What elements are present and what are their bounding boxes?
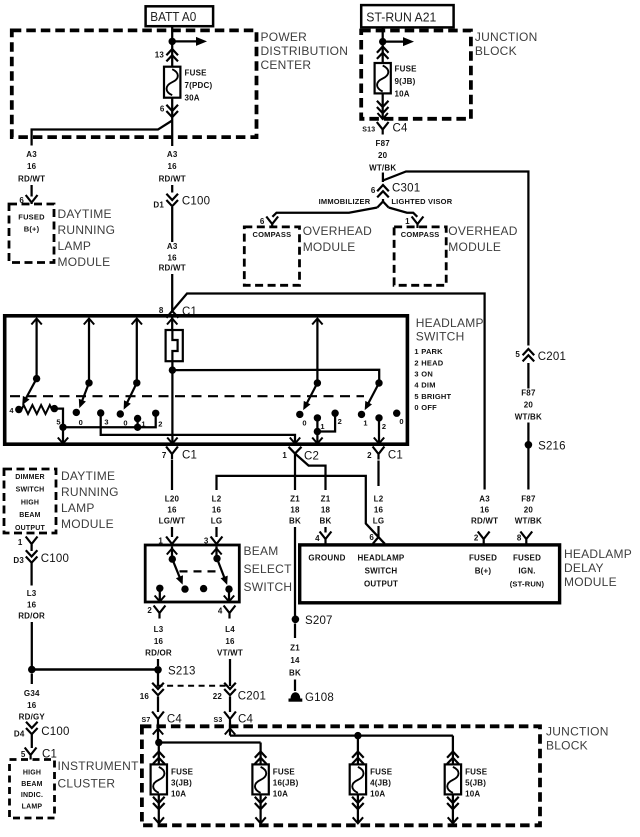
svg-text:C2: C2 [304, 451, 319, 463]
svg-text:PARK: PARK [421, 347, 443, 356]
power distribution center dashed box [12, 30, 257, 137]
wire bus contacts 5-1-2 [63, 426, 138, 428]
fuse F5 JB 10A [445, 736, 488, 824]
svg-text:L3: L3 [154, 625, 164, 634]
svg-text:G34: G34 [24, 689, 40, 698]
switch wiper low beam [169, 555, 183, 584]
svg-text:MODULE: MODULE [448, 240, 501, 254]
svg-text:16: 16 [27, 162, 37, 171]
svg-text:RUNNING: RUNNING [58, 223, 116, 237]
wire fuse 9 output [378, 93, 388, 119]
svg-text:A3: A3 [26, 150, 37, 159]
wire breaker to bus [171, 361, 173, 370]
svg-text:RD/WT: RD/WT [471, 517, 498, 526]
wire arrow to case left [58, 427, 68, 443]
svg-text:RD/WT: RD/WT [159, 264, 186, 273]
svg-text:1: 1 [363, 419, 367, 428]
wire into beam pin 1 [171, 527, 173, 537]
svg-text:20: 20 [524, 401, 534, 410]
wire label L3 16 RD/OR mid [145, 625, 172, 658]
svg-text:HEADLAMP: HEADLAMP [358, 554, 405, 563]
svg-text:G108: G108 [305, 692, 334, 704]
svg-text:6: 6 [369, 533, 374, 542]
svg-text:S213: S213 [168, 666, 196, 678]
label DAYTIME RUNNING LAMP MODULE 2 [61, 469, 119, 531]
svg-text:DELAY: DELAY [564, 561, 604, 575]
connector C201 dashed boundary [157, 685, 227, 687]
wire pin1 C2 down [294, 454, 296, 491]
svg-text:10A: 10A [465, 790, 480, 799]
node contacts 1-2 right [314, 428, 321, 435]
wire label A3 16 RD/WT left [18, 150, 45, 184]
svg-text:WT/BK: WT/BK [515, 517, 542, 526]
svg-text:HIGH: HIGH [23, 770, 41, 777]
wire into C100 [171, 185, 173, 193]
svg-text:LAMP: LAMP [22, 803, 43, 810]
svg-text:0: 0 [79, 418, 83, 427]
switch wiper headlamps [365, 379, 383, 410]
delay module pin text FUSED B+ [469, 554, 497, 576]
label FUSE 9(JB) 10A [395, 65, 418, 99]
contact spare [200, 585, 207, 592]
circuit breaker headlamp switch [166, 330, 183, 361]
wire F87 to C301 [382, 173, 384, 183]
connector C? pin 6 fork [26, 195, 38, 204]
svg-text:ST-RUN A21: ST-RUN A21 [366, 10, 436, 25]
wire high beam to S213 [32, 668, 158, 670]
connector C2 pin 1 [282, 447, 319, 463]
wire ST-RUN down to fuse 9 [382, 27, 384, 63]
svg-text:INSTRUMENT: INSTRUMENT [58, 759, 140, 773]
svg-text:SWITCH: SWITCH [16, 487, 45, 494]
wire into delay pin 4 [324, 527, 326, 533]
wire to S216 [527, 423, 529, 442]
svg-text:BRIGHT: BRIGHT [421, 392, 451, 401]
wire breaker down to pin 7 [167, 370, 177, 443]
svg-text:C100: C100 [41, 726, 69, 738]
delay module pin text FUSED IGN [510, 554, 545, 589]
svg-text:C1: C1 [182, 450, 197, 462]
label FUSE 7(PDC) 30A [185, 69, 213, 103]
svg-text:16: 16 [167, 506, 177, 515]
svg-text:14: 14 [290, 656, 300, 665]
svg-text:C4: C4 [238, 714, 254, 726]
junction block dashed box top [361, 31, 471, 119]
connector pin 1 dimmer [18, 537, 38, 552]
connector C100 D1 [153, 194, 210, 210]
svg-text:SWITCH: SWITCH [365, 567, 398, 576]
svg-text:A3: A3 [167, 242, 178, 251]
svg-text:10A: 10A [395, 90, 410, 99]
svg-text:OVERHEAD: OVERHEAD [303, 224, 372, 238]
svg-text:16: 16 [374, 506, 384, 515]
connector C4 S7 [142, 712, 183, 726]
svg-text:16: 16 [168, 254, 178, 263]
svg-text:8: 8 [517, 534, 522, 543]
connector C301 pin 6 [371, 183, 420, 198]
svg-text:COMPASS: COMPASS [253, 230, 292, 239]
svg-text:RD/WT: RD/WT [18, 175, 45, 184]
fuse F7 PDC 30A [164, 67, 180, 98]
wire S207 down [294, 624, 296, 639]
rheostat resistor [22, 405, 53, 414]
svg-text:CLUSTER: CLUSTER [58, 777, 116, 791]
wire label L20 16 LG/WT [159, 495, 186, 526]
svg-text:6: 6 [260, 217, 265, 226]
ignition feed label ST-RUN A21 [361, 5, 453, 27]
wire to headlamp switch [171, 274, 173, 312]
svg-text:C201: C201 [538, 351, 566, 363]
svg-text:0: 0 [414, 403, 418, 412]
svg-text:Z1: Z1 [321, 495, 331, 504]
svg-text:DISTRIBUTION: DISTRIBUTION [261, 44, 349, 58]
svg-text:2: 2 [158, 420, 162, 429]
svg-text:OUTPUT: OUTPUT [15, 525, 45, 532]
wire branch A3 to delay module [166, 294, 484, 490]
svg-text:FUSE: FUSE [395, 65, 418, 74]
splice S216 [525, 441, 566, 453]
svg-text:S13: S13 [362, 127, 375, 134]
arrow branch right from ST-RUN node [383, 37, 414, 46]
svg-text:SWITCH: SWITCH [244, 580, 293, 594]
svg-text:C1: C1 [388, 450, 403, 462]
svg-text:CENTER: CENTER [261, 58, 312, 72]
contact high beam out [225, 585, 232, 592]
arrow branch right from BATT node [172, 37, 207, 46]
wire entry pin 8 [167, 317, 177, 330]
svg-text:0: 0 [302, 419, 306, 428]
wire into beam pin 3 [215, 527, 217, 537]
svg-text:BLOCK: BLOCK [546, 739, 588, 753]
contact low beam out [156, 585, 163, 592]
contact 0 park [73, 409, 83, 427]
wire contact 3 to pin 1 exit [101, 413, 301, 444]
pin 6 label DRL [19, 196, 24, 205]
svg-text:DIM: DIM [421, 381, 435, 390]
fuse F16 JB 10A [252, 743, 298, 824]
svg-text:F87: F87 [521, 389, 536, 398]
svg-text:RD/WT: RD/WT [159, 175, 186, 184]
svg-text:SWITCH: SWITCH [416, 330, 465, 344]
junction block dashed box bottom [142, 726, 540, 825]
contact 0 off right [393, 410, 404, 427]
svg-text:1: 1 [282, 451, 287, 460]
connector C1 pin 8 [159, 306, 197, 318]
switch wiper head [124, 379, 141, 409]
connector beam pin 4 [218, 606, 236, 619]
svg-text:FUSE: FUSE [273, 768, 296, 777]
svg-text:4: 4 [414, 381, 419, 390]
label DAYTIME RUNNING LAMP MODULE 1 [58, 207, 116, 269]
contact 2 right [375, 414, 386, 431]
svg-text:5: 5 [515, 350, 520, 359]
wire L4 down [229, 659, 231, 686]
label INSTRUMENT CLUSTER [58, 759, 140, 791]
svg-text:WT/BK: WT/BK [515, 413, 542, 422]
svg-text:S207: S207 [305, 615, 333, 627]
wire C201-22 down [229, 697, 231, 713]
fuse F3 JB 10A [151, 743, 194, 824]
fuse F9 JB 10A [375, 63, 391, 93]
wire feed park wiper [84, 319, 94, 383]
svg-text:Z1: Z1 [290, 495, 300, 504]
wire high beam exit [224, 589, 234, 601]
svg-text:C4: C4 [393, 123, 409, 135]
wire branch F87 right [383, 172, 529, 346]
svg-text:16: 16 [212, 506, 222, 515]
wire pin2 C1 down [377, 461, 379, 487]
fuse F4 JB 10A [350, 736, 393, 824]
delay module pin text HEADLAMP SWITCH OUTPUT [358, 554, 405, 589]
label POWER DISTRIBUTION CENTER [261, 30, 349, 72]
svg-text:JUNCTION: JUNCTION [475, 30, 538, 44]
switch internal dashed line [10, 395, 364, 397]
wire S213 down [157, 674, 159, 687]
switch wiper interior lamps [303, 379, 321, 410]
node fuse bus A [155, 739, 162, 746]
svg-text:FUSED: FUSED [469, 554, 497, 563]
svg-text:3: 3 [414, 369, 418, 378]
svg-text:18: 18 [290, 506, 300, 515]
svg-text:0: 0 [399, 417, 403, 426]
svg-text:HIGH: HIGH [21, 499, 39, 506]
svg-text:3: 3 [104, 418, 108, 427]
label LIGHTED VISOR [391, 197, 452, 206]
wire bus A [159, 741, 261, 743]
wire feed head wiper [132, 319, 142, 383]
svg-text:2: 2 [474, 534, 479, 543]
wire C100 down [171, 207, 173, 242]
svg-text:DIMMER: DIMMER [15, 474, 45, 481]
connector delay pin 4 [315, 532, 331, 545]
contact 1 left [134, 415, 146, 429]
svg-text:FUSED: FUSED [513, 554, 541, 563]
node breaker output [169, 366, 176, 373]
wire branch to left A3 [32, 121, 173, 146]
svg-text:OUTPUT: OUTPUT [364, 580, 398, 589]
svg-text:6: 6 [160, 105, 165, 114]
svg-text:5: 5 [21, 750, 26, 759]
connector C4 S13 [362, 122, 408, 135]
contact 2 mid [317, 410, 342, 432]
svg-text:Z1: Z1 [290, 644, 300, 653]
svg-text:FUSE: FUSE [370, 768, 393, 777]
svg-text:HEADLAMP: HEADLAMP [416, 316, 484, 330]
svg-text:1: 1 [405, 217, 410, 226]
daytime running lamp module fused B+ dashed box [9, 204, 54, 263]
connector C1 pin 2 [367, 447, 403, 462]
connector C201 pin 22 [213, 683, 266, 703]
headlamp switch position list [414, 347, 451, 412]
contact 3 [97, 409, 109, 426]
contact 5 [51, 405, 61, 427]
svg-text:C100: C100 [41, 553, 69, 565]
svg-text:2: 2 [367, 451, 372, 460]
svg-text:4: 4 [315, 534, 320, 543]
svg-text:BEAM: BEAM [21, 781, 42, 788]
svg-text:9(JB): 9(JB) [395, 77, 416, 86]
wire C301 split [377, 199, 388, 208]
svg-text:16(JB): 16(JB) [273, 779, 299, 788]
svg-text:S7: S7 [142, 717, 151, 724]
svg-text:7: 7 [162, 451, 167, 460]
beam switch dashed line [180, 570, 218, 572]
contact 1 mid [314, 414, 325, 431]
battery feed label BATT A0 [146, 6, 214, 26]
svg-text:18: 18 [321, 506, 331, 515]
svg-text:INDIC.: INDIC. [21, 792, 43, 799]
svg-text:MODULE: MODULE [564, 575, 617, 589]
connector chevrons above fuse 9 [377, 47, 389, 59]
delay module pin text GROUND [308, 554, 345, 563]
svg-text:SELECT: SELECT [244, 562, 293, 576]
splice S207 [292, 615, 333, 627]
svg-text:RUNNING: RUNNING [61, 485, 119, 499]
connector C100 D4 [14, 722, 70, 739]
svg-text:5: 5 [414, 392, 418, 401]
connector C4 S3 [214, 712, 254, 726]
label IMMOBILIZER [319, 197, 371, 206]
svg-text:DAYTIME: DAYTIME [58, 207, 112, 221]
svg-text:WT/BK: WT/BK [369, 164, 396, 173]
svg-text:7(PDC): 7(PDC) [185, 81, 213, 90]
svg-text:L2: L2 [374, 495, 384, 504]
wire label F87 20 WT/BK mid [515, 389, 542, 422]
svg-text:JUNCTION: JUNCTION [546, 725, 609, 739]
wire branch L2 to beam pin 3 [217, 476, 385, 544]
svg-text:L20: L20 [165, 495, 180, 504]
svg-text:FUSE: FUSE [185, 69, 208, 78]
connector beam pin 1 [158, 537, 178, 546]
connector beam pin 3 [204, 537, 223, 546]
svg-text:0: 0 [123, 419, 127, 428]
svg-text:C301: C301 [392, 183, 420, 195]
svg-text:RD/OR: RD/OR [18, 612, 45, 621]
svg-text:LG: LG [211, 517, 223, 526]
wire label Z1 18 BK second [320, 495, 332, 526]
svg-text:LAMP: LAMP [58, 239, 92, 253]
svg-text:IGN.: IGN. [518, 567, 535, 576]
svg-text:FUSE: FUSE [465, 768, 488, 777]
wire below G34 node [31, 674, 33, 685]
wire label A3 16 RD/WT centre [159, 150, 186, 184]
wire BATT A0 down to fuse 7 [171, 26, 173, 66]
switch wiper park [79, 379, 93, 408]
label BEAM SELECT SWITCH [244, 544, 293, 594]
connector C1 pin 7 [162, 447, 197, 462]
svg-text:OVERHEAD: OVERHEAD [448, 224, 517, 238]
svg-text:A3: A3 [167, 150, 178, 159]
wire contact 5 down [54, 409, 63, 428]
svg-text:COMPASS: COMPASS [401, 230, 440, 239]
label HEADLAMP DELAY MODULE [564, 547, 632, 589]
wire arrow to case right [312, 432, 322, 444]
connector chevrons pin 13 [166, 49, 178, 61]
wire label Z1 18 BK first [289, 495, 301, 526]
contact 4 [9, 406, 22, 415]
contact 1 right [358, 411, 368, 428]
wire D3 down [30, 563, 32, 586]
svg-text:10A: 10A [171, 790, 186, 799]
svg-text:16: 16 [225, 637, 235, 646]
wire label L2 16 LG right [373, 495, 385, 526]
wire to DRL module [30, 185, 32, 197]
svg-text:8: 8 [159, 306, 164, 315]
svg-text:L3: L3 [27, 589, 37, 598]
svg-text:C201: C201 [238, 691, 266, 703]
svg-text:2: 2 [338, 417, 342, 426]
svg-text:D1: D1 [153, 201, 164, 210]
svg-text:16: 16 [154, 637, 164, 646]
svg-text:BLOCK: BLOCK [475, 44, 517, 58]
wire label A3 16 RD/WT centre 2 [159, 242, 186, 273]
svg-text:1: 1 [414, 347, 418, 356]
svg-text:RD/GY: RD/GY [19, 713, 46, 722]
svg-text:16: 16 [140, 692, 150, 701]
svg-text:D4: D4 [14, 730, 25, 739]
connector C1 pin 5 [21, 748, 57, 761]
svg-text:30A: 30A [185, 94, 200, 103]
svg-text:S216: S216 [538, 441, 566, 453]
svg-text:2: 2 [147, 606, 152, 615]
svg-text:MODULE: MODULE [61, 517, 114, 531]
wire S7 entry [153, 724, 163, 743]
label OVERHEAD MODULE 1 [303, 224, 372, 254]
svg-text:HEAD: HEAD [421, 358, 443, 367]
connector chevrons pin 6 [166, 105, 178, 117]
switch wiper high beam [213, 555, 227, 585]
wire C2 branch to delay ground [295, 454, 326, 491]
svg-text:LIGHTED VISOR: LIGHTED VISOR [391, 197, 452, 206]
svg-text:(ST-RUN): (ST-RUN) [510, 580, 545, 589]
wire bus B [230, 734, 453, 736]
wire to compass module 2 [389, 208, 418, 217]
overhead module 2 dashed box [394, 227, 446, 285]
contact 0 right [296, 411, 307, 428]
headlamp delay module box [300, 545, 560, 603]
wire label L3 16 RD/OR left [18, 589, 45, 621]
connector C201 pin 16 [140, 683, 164, 701]
label HEADLAMP SWITCH [416, 316, 484, 344]
svg-text:20: 20 [524, 506, 534, 515]
connector delay pin 2 [474, 532, 490, 545]
node wiper bus left [59, 424, 66, 431]
svg-text:16: 16 [27, 601, 37, 610]
high beam indicator lamp dashed box [10, 760, 55, 819]
pin 6 label [160, 105, 165, 114]
node high beam splice [28, 666, 36, 674]
wire to ground [294, 680, 296, 692]
svg-text:BK: BK [289, 517, 301, 526]
node contact bus [134, 424, 141, 431]
connector delay pin 8 [517, 532, 532, 545]
wire fuse 7 output down [171, 98, 173, 146]
svg-text:10A: 10A [370, 790, 385, 799]
wire bus to right wiper [172, 370, 379, 383]
svg-text:2: 2 [414, 358, 418, 367]
svg-text:C4: C4 [167, 714, 183, 726]
svg-text:6: 6 [371, 186, 376, 195]
wire low beam exit [155, 588, 165, 601]
splice S213 [154, 666, 195, 678]
svg-text:16: 16 [27, 701, 37, 710]
svg-text:POWER: POWER [261, 30, 308, 44]
svg-text:MODULE: MODULE [303, 240, 356, 254]
switch wiper dimmer [22, 375, 40, 405]
svg-text:FUSED: FUSED [18, 213, 45, 222]
svg-text:L2: L2 [212, 495, 222, 504]
wire label G34 16 RD/GY [19, 689, 46, 722]
